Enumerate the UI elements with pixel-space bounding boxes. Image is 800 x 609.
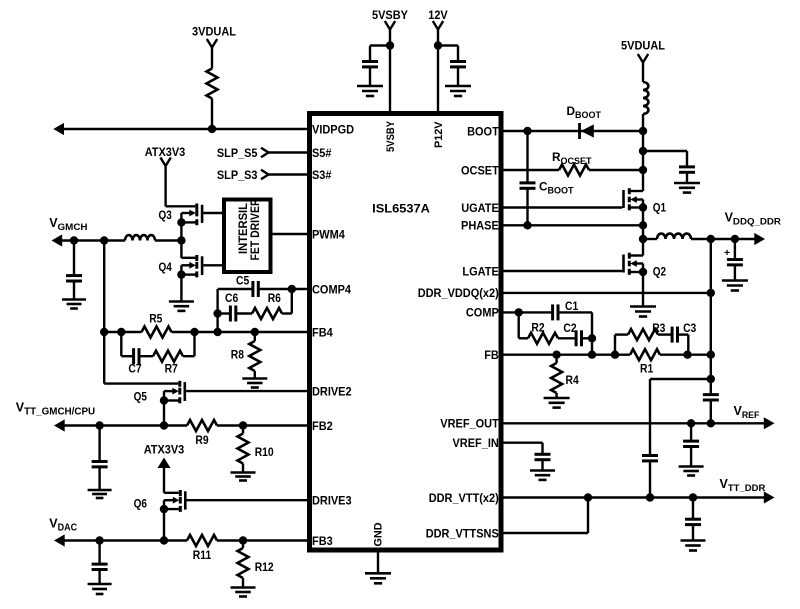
svg-text:LGATE: LGATE [462, 264, 499, 278]
svg-text:R12: R12 [255, 562, 274, 574]
svg-text:VIDPGD: VIDPGD [312, 122, 355, 136]
svg-text:FB3: FB3 [312, 534, 333, 548]
svg-text:P12V: P12V [433, 121, 445, 148]
svg-text:R5: R5 [149, 314, 163, 326]
svg-text:ISL6537A: ISL6537A [372, 201, 430, 215]
svg-text:R2: R2 [531, 323, 544, 335]
svg-text:SLP_S5: SLP_S5 [217, 146, 258, 160]
svg-text:VDAC: VDAC [49, 517, 77, 534]
svg-text:FB: FB [484, 348, 499, 362]
svg-text:R6: R6 [268, 293, 281, 305]
svg-text:PWM4: PWM4 [312, 227, 345, 241]
svg-text:ATX3V3: ATX3V3 [145, 145, 186, 159]
svg-text:R7: R7 [165, 364, 178, 376]
svg-text:ATX3V3: ATX3V3 [144, 443, 185, 457]
svg-text:C5: C5 [236, 276, 250, 288]
svg-text:R10: R10 [255, 447, 274, 459]
svg-text:5VSBY: 5VSBY [372, 8, 408, 22]
svg-text:DDR_VDDQ(x2): DDR_VDDQ(x2) [418, 286, 499, 300]
svg-text:DRIVE2: DRIVE2 [312, 384, 352, 398]
svg-text:DDR_VTT(x2): DDR_VTT(x2) [429, 491, 499, 505]
svg-text:C1: C1 [565, 301, 579, 313]
svg-text:R3: R3 [652, 323, 665, 335]
svg-text:VDDQ_DDR: VDDQ_DDR [725, 211, 782, 227]
svg-text:OCSET: OCSET [461, 163, 500, 177]
svg-text:COMP4: COMP4 [312, 282, 351, 296]
svg-text:Q2: Q2 [653, 267, 666, 279]
svg-text:5VDUAL: 5VDUAL [621, 39, 665, 53]
svg-text:GND: GND [373, 522, 385, 546]
svg-text:PHASE: PHASE [461, 219, 499, 233]
svg-text:C3: C3 [683, 323, 696, 335]
svg-text:CBOOT: CBOOT [539, 180, 574, 196]
svg-text:R1: R1 [640, 364, 654, 376]
svg-text:VTT_GMCH/CPU: VTT_GMCH/CPU [16, 401, 95, 418]
svg-text:Q1: Q1 [653, 203, 667, 215]
svg-text:S5#: S5# [312, 146, 332, 160]
svg-text:S3#: S3# [312, 168, 332, 182]
svg-text:COMP: COMP [466, 306, 499, 320]
svg-text:+: + [724, 247, 730, 259]
svg-text:Q6: Q6 [134, 499, 147, 511]
svg-text:5VSBY: 5VSBY [385, 120, 397, 152]
svg-text:VREF_OUT: VREF_OUT [440, 417, 499, 431]
svg-text:Q5: Q5 [134, 392, 148, 404]
svg-text:C7: C7 [128, 364, 141, 376]
svg-text:R11: R11 [193, 550, 212, 562]
svg-text:Q3: Q3 [159, 210, 172, 222]
svg-text:12V: 12V [428, 8, 448, 22]
svg-text:R9: R9 [195, 435, 208, 447]
svg-text:R8: R8 [231, 350, 245, 362]
svg-text:VTT_DDR: VTT_DDR [720, 477, 766, 494]
svg-text:FB2: FB2 [312, 419, 333, 433]
svg-text:VREF: VREF [734, 404, 760, 421]
svg-text:VGMCH: VGMCH [49, 216, 87, 232]
svg-text:DBOOT: DBOOT [567, 104, 602, 120]
svg-text:C2: C2 [563, 323, 576, 335]
svg-text:Q4: Q4 [159, 262, 173, 274]
svg-text:VREF_IN: VREF_IN [453, 436, 499, 450]
svg-text:BOOT: BOOT [467, 124, 499, 138]
svg-text:FET DRIVER: FET DRIVER [248, 198, 262, 260]
svg-text:DRIVE3: DRIVE3 [312, 493, 352, 507]
svg-text:SLP_S3: SLP_S3 [217, 168, 258, 182]
svg-text:DDR_VTTSNS: DDR_VTTSNS [426, 526, 499, 540]
svg-text:ROCSET: ROCSET [552, 150, 592, 166]
svg-text:R4: R4 [566, 375, 580, 387]
svg-text:3VDUAL: 3VDUAL [192, 25, 236, 39]
svg-text:FB4: FB4 [312, 325, 333, 339]
svg-text:UGATE: UGATE [461, 201, 499, 215]
svg-text:C6: C6 [225, 293, 238, 305]
